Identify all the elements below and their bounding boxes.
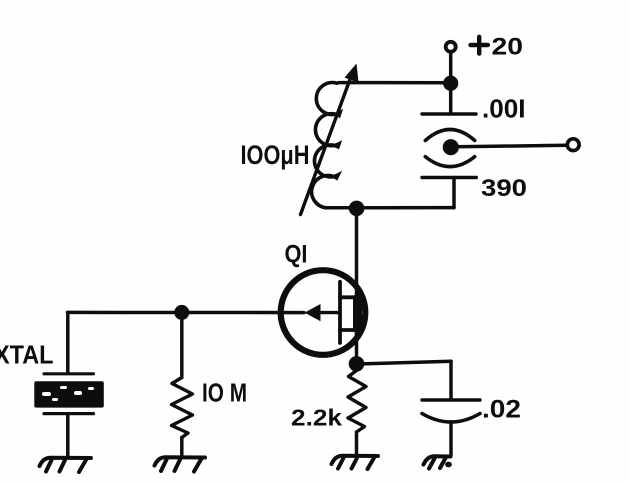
svg-text:390: 390: [481, 175, 527, 202]
svg-text:IOOμH: IOOμH: [241, 140, 310, 170]
svg-text:.00I: .00I: [482, 96, 526, 124]
svg-text:QI: QI: [285, 241, 308, 269]
svg-text:2.2k: 2.2k: [291, 405, 343, 431]
svg-text:XTAL: XTAL: [0, 340, 54, 370]
svg-text:.02: .02: [482, 396, 521, 424]
svg-text:20: 20: [492, 34, 524, 61]
svg-text:IO M: IO M: [202, 380, 247, 408]
